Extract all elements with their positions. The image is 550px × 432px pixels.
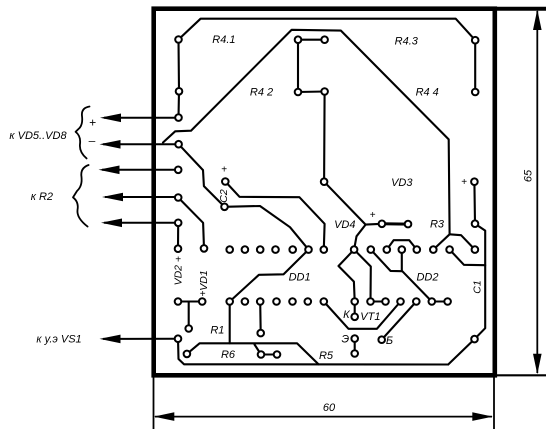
svg-text:Б: Б — [386, 335, 393, 347]
svg-text:к R2: к R2 — [31, 191, 53, 203]
svg-text:R4.3: R4.3 — [395, 36, 419, 48]
svg-text:–: – — [88, 134, 96, 148]
svg-text:R4 2: R4 2 — [250, 87, 273, 99]
svg-text:VD1: VD1 — [198, 270, 210, 290]
svg-text:R5: R5 — [319, 350, 334, 362]
svg-text:+: + — [370, 210, 376, 221]
svg-text:65: 65 — [523, 169, 535, 182]
svg-text:R4 4: R4 4 — [416, 87, 439, 99]
svg-text:VT1: VT1 — [360, 311, 380, 323]
svg-text:VD2: VD2 — [173, 265, 185, 286]
svg-text:+: + — [89, 116, 96, 130]
svg-text:VD4: VD4 — [334, 219, 355, 231]
svg-text:VD3: VD3 — [391, 177, 413, 189]
svg-text:60: 60 — [323, 402, 336, 414]
svg-text:R3: R3 — [430, 219, 445, 231]
svg-text:C2: C2 — [218, 189, 230, 203]
svg-text:к VD5..VD8: к VD5..VD8 — [9, 130, 67, 142]
svg-text:к у.э VS1: к у.э VS1 — [36, 334, 81, 346]
svg-text:+: + — [461, 177, 467, 188]
svg-text:R1: R1 — [210, 324, 224, 336]
svg-text:R4.1: R4.1 — [212, 34, 235, 46]
svg-text:DD2: DD2 — [416, 272, 438, 284]
svg-text:R6: R6 — [221, 349, 236, 361]
svg-text:+: + — [175, 254, 181, 265]
svg-text:К: К — [343, 309, 350, 321]
svg-text:DD1: DD1 — [289, 272, 311, 284]
svg-text:+: + — [221, 165, 227, 176]
svg-text:C1: C1 — [471, 280, 483, 293]
svg-text:+: + — [200, 289, 206, 300]
svg-text:Э: Э — [341, 334, 349, 346]
